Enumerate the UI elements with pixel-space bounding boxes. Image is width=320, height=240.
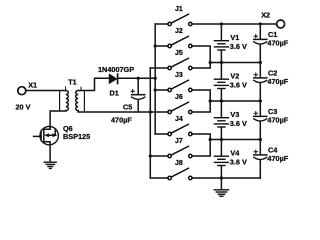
node 3 rail <box>210 139 260 141</box>
svg-text:X2: X2 <box>261 10 270 19</box>
svg-text:V2: V2 <box>230 72 239 81</box>
node 4 bottom rail <box>192 177 260 179</box>
switch J7 <box>150 146 192 158</box>
svg-text:J6: J6 <box>175 94 183 101</box>
secondary return line <box>83 91 85 112</box>
ground (left, under Q6) <box>44 162 56 168</box>
svg-text:3.6 V: 3.6 V <box>230 42 247 51</box>
svg-text:3.6 V: 3.6 V <box>230 119 247 128</box>
svg-text:3.6 V: 3.6 V <box>230 158 247 167</box>
switch J5 <box>150 58 192 70</box>
battery V2 <box>214 63 228 102</box>
plus sign C1 <box>254 35 257 38</box>
svg-text:J7: J7 <box>175 138 183 145</box>
svg-text:470µF: 470µF <box>267 116 288 125</box>
wire X1 to T1 primary top <box>26 90 66 92</box>
plus sign C3 <box>254 112 257 115</box>
primary return line <box>59 91 61 112</box>
svg-text:J2: J2 <box>175 28 183 35</box>
bus A vertical (charger +) <box>154 24 156 134</box>
diode D1 <box>109 74 116 83</box>
node 2 rail <box>210 100 260 102</box>
svg-text:470µF: 470µF <box>267 154 288 163</box>
svg-text:J8: J8 <box>175 160 183 167</box>
node 1 rail <box>210 62 260 64</box>
svg-text:C5: C5 <box>123 103 132 112</box>
switch J2 <box>155 36 192 48</box>
svg-text:T1: T1 <box>68 78 77 87</box>
capacitor C3 <box>254 101 267 140</box>
svg-text:3.6 V: 3.6 V <box>230 81 247 90</box>
wire J3/J6 to node 2 <box>192 90 210 112</box>
switch J8 <box>150 168 192 180</box>
bus B vertical (charger -) <box>149 68 151 178</box>
battery V1 <box>214 24 228 63</box>
svg-text:1N4007GP: 1N4007GP <box>98 65 134 74</box>
svg-text:D1: D1 <box>110 88 119 97</box>
svg-text:V4: V4 <box>230 149 240 158</box>
switch J4 <box>155 124 192 136</box>
capacitor C5 <box>137 78 139 94</box>
battery V3 <box>214 101 228 140</box>
transformer T1 secondary coil <box>76 91 79 111</box>
svg-text:J3: J3 <box>175 72 183 79</box>
transistor Q6 (MOSFET) <box>34 126 59 144</box>
svg-text:J1: J1 <box>175 6 183 13</box>
capacitor C2 <box>254 63 267 102</box>
svg-text:X1: X1 <box>28 80 37 89</box>
wire T1 secondary top to D1 anode <box>78 78 109 90</box>
wire J2/J5 to node 1 <box>192 46 210 68</box>
svg-text:20 V: 20 V <box>16 103 31 112</box>
terminal X1 <box>18 87 26 95</box>
capacitor C4 <box>254 140 267 179</box>
wire J4/J7 to node 3 <box>192 134 210 156</box>
ground (right, under V4) <box>214 190 228 196</box>
wire T1 secondary bottom to J6 (net with bus B) <box>78 111 168 112</box>
svg-text:470µF: 470µF <box>267 77 288 86</box>
capacitor C1 <box>254 24 267 63</box>
svg-text:V3: V3 <box>230 110 239 119</box>
svg-text:J4: J4 <box>175 116 183 123</box>
svg-text:BSP125: BSP125 <box>63 132 90 141</box>
switch J3 <box>155 80 192 92</box>
terminal X2 <box>277 20 285 28</box>
plus sign C5 <box>131 90 134 93</box>
switch J6 <box>168 102 192 114</box>
secondary pin tick <box>80 87 82 90</box>
wire primary bottom to Q6 drain <box>50 111 66 127</box>
primary pin tick <box>65 87 67 91</box>
svg-text:470µF: 470µF <box>111 115 132 124</box>
wire D1 cathode to bus A (feed) <box>118 77 156 79</box>
node 0 top rail <box>192 23 277 25</box>
switch J1 <box>155 14 192 25</box>
plus sign C2 <box>254 73 257 76</box>
svg-text:V1: V1 <box>230 33 239 42</box>
transformer T1 primary coil <box>66 91 69 111</box>
svg-text:470µF: 470µF <box>267 39 288 48</box>
battery V4 <box>214 140 228 179</box>
plus sign C4 <box>254 150 257 153</box>
wire Q6 source to ground <box>49 145 51 162</box>
svg-text:J5: J5 <box>175 50 183 57</box>
wire ground stem right <box>220 178 222 189</box>
